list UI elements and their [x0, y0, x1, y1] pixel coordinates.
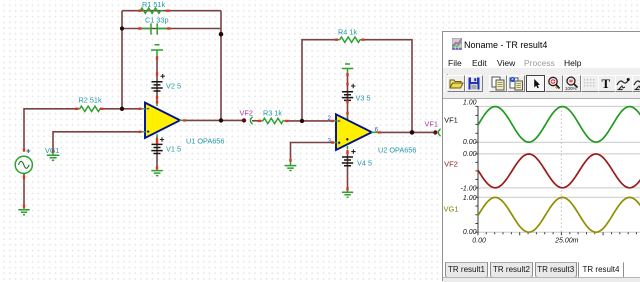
op-amp pin stubs: [142, 103, 379, 150]
waveform VG1: [478, 197, 640, 232]
waveform VF2: [478, 154, 640, 188]
svg-text:VF1: VF1: [425, 120, 438, 129]
wire V1 supply chain: [156, 137, 158, 167]
chart area: [443, 98, 640, 262]
svg-text:U2 OPA656: U2 OPA656: [378, 146, 416, 155]
svg-text:VF1: VF1: [444, 116, 458, 125]
window title bar: [443, 32, 640, 53]
svg-text:3: 3: [328, 137, 332, 144]
toolbar: [443, 68, 640, 99]
svg-text:VF2: VF2: [240, 109, 253, 118]
junction C1 left / feedback node: [120, 26, 124, 30]
svg-text:1.00: 1.00: [463, 100, 477, 107]
wire U1 noninverting input to ground: [53, 132, 141, 150]
resistor R4: [338, 37, 363, 42]
label R3: [263, 109, 282, 118]
battery V3: [342, 92, 353, 101]
svg-text:0.00: 0.00: [463, 139, 477, 146]
ground below V4: [342, 188, 353, 197]
battery V4: [342, 157, 353, 166]
pin terminal marks (vertical pins): [24, 56, 348, 208]
junction U1 inverting input node: [120, 107, 124, 111]
junction U1 output node: [219, 118, 223, 122]
svg-text:0.00: 0.00: [463, 229, 477, 236]
wire U2 output to VF1: [380, 131, 433, 133]
voltage pin VF2: [242, 117, 253, 124]
resistor R2: [78, 106, 103, 111]
ground below V1: [151, 166, 163, 176]
svg-text:-1.00: -1.00: [461, 185, 477, 192]
ground above V2 inverted: [151, 45, 163, 57]
label V4: [357, 159, 372, 168]
pin number 6: [375, 126, 379, 133]
label V3: [356, 94, 371, 103]
wire U1 output to VF2 node: [185, 119, 242, 121]
ground below VG1: [18, 205, 29, 215]
wire top feedback R1 branch: [122, 11, 221, 109]
ground at U1 noninverting input: [47, 151, 60, 160]
svg-text:R4 1k: R4 1k: [338, 28, 357, 37]
wire V3 supply chain: [347, 73, 349, 120]
wire right feedback vertical: [220, 11, 222, 121]
svg-text:2: 2: [328, 115, 332, 122]
label V1: [166, 145, 181, 154]
svg-text:VG1: VG1: [444, 204, 459, 213]
svg-text:V2 5: V2 5: [166, 82, 181, 91]
svg-text:R2 51k: R2 51k: [79, 96, 102, 105]
battery V1: [151, 144, 162, 153]
svg-text:100%: 100%: [565, 86, 577, 91]
label VF1: [425, 120, 438, 129]
ground above V3 inverted: [342, 64, 354, 74]
wire R3 to U2 pin2: [287, 120, 332, 122]
menu bar: [448, 58, 462, 68]
pin terminal marks (horizontal pins): [75, 11, 381, 143]
wire R4 right branch to output node: [363, 40, 412, 133]
svg-text:V1 5: V1 5: [166, 145, 181, 154]
svg-text:6: 6: [375, 126, 379, 133]
label V2: [166, 82, 181, 91]
svg-text:R3 1k: R3 1k: [263, 109, 282, 118]
svg-text:0.00: 0.00: [463, 151, 477, 158]
wire V4 supply chain: [347, 150, 349, 188]
bottom tabs: [445, 262, 488, 278]
svg-text:VF2: VF2: [444, 159, 458, 168]
wire V2 supply chain: [156, 57, 158, 104]
label VG1: [45, 146, 60, 155]
svg-text:V3 5: V3 5: [356, 94, 371, 103]
label U1: [186, 137, 224, 146]
voltage generator VG1: [15, 156, 32, 173]
waveform VF1: [478, 107, 640, 143]
battery V2: [151, 82, 162, 91]
wire VF2 to R3: [252, 120, 259, 122]
svg-text:0.00: 0.00: [472, 237, 486, 244]
ground at U2 pin3: [285, 160, 297, 171]
label R1: [142, 0, 165, 9]
resistor R3: [261, 118, 286, 123]
label C1: [145, 16, 169, 25]
pin number 2: [328, 115, 332, 122]
voltage pin VF1: [433, 129, 441, 136]
svg-text:1.00: 1.00: [463, 195, 477, 202]
pin number 3: [328, 137, 332, 144]
wire C1 branch: [122, 28, 221, 30]
junction U2 inverting input node: [300, 119, 304, 123]
label VF2: [240, 109, 253, 118]
capacitor C1: [142, 23, 168, 34]
TR result window: [442, 31, 640, 281]
label R4: [338, 28, 357, 37]
svg-text:VG1: VG1: [45, 146, 60, 155]
label R2: [79, 96, 102, 105]
label U2: [378, 146, 416, 155]
wire VG1 to R2: [24, 109, 76, 149]
wire U2 pin3 to ground: [291, 143, 333, 159]
junction U2 output node: [410, 130, 415, 135]
resistor R1: [138, 8, 163, 13]
svg-text:R1 51k: R1 51k: [142, 0, 165, 9]
svg-text:C1 33p: C1 33p: [145, 16, 169, 25]
op-amp U1: [145, 103, 180, 138]
wire R2 to U1 inverting input: [102, 108, 141, 110]
junction C1 right: [219, 32, 224, 37]
svg-text:V4 5: V4 5: [357, 159, 372, 168]
op-amp U2: [336, 114, 372, 150]
svg-text:25.00m: 25.00m: [554, 237, 579, 244]
wire R4 left branch: [302, 40, 336, 121]
wire VG1 bottom to ground: [23, 173, 25, 205]
svg-text:U1 OPA656: U1 OPA656: [186, 137, 224, 146]
